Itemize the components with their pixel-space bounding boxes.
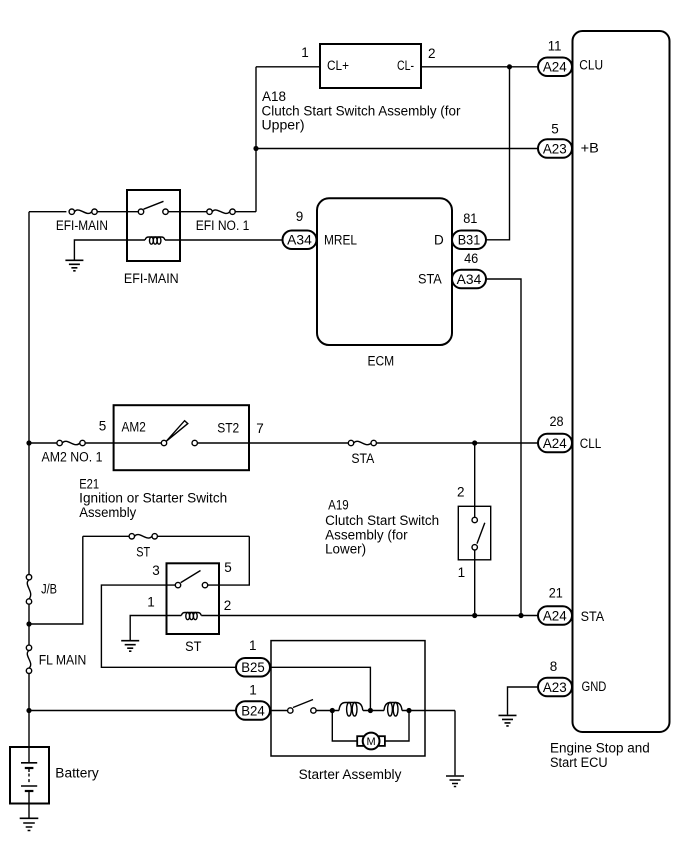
wire CLL to switch A19 (474, 443, 476, 517)
svg-text:81: 81 (463, 211, 477, 226)
svg-text:46: 46 (464, 251, 478, 266)
wire CL+ pin1 (256, 66, 320, 68)
starter assembly box (271, 641, 425, 782)
pin B24 (236, 683, 270, 720)
relay ST contacts (175, 571, 207, 588)
svg-text:11: 11 (548, 38, 562, 53)
wire STA row (201, 615, 538, 617)
relay EFI-MAIN contacts (138, 201, 168, 214)
svg-text:28: 28 (549, 414, 563, 429)
node junction B24 row left (26, 708, 31, 713)
ground (EFI relay) (65, 260, 83, 271)
wire B25 into starter (270, 667, 370, 710)
wire coil to ground (130, 616, 181, 641)
svg-text:Lower): Lower) (325, 542, 366, 557)
svg-text:8: 8 (550, 659, 558, 674)
fuse EFI-MAIN (56, 209, 108, 233)
relay ST box (167, 563, 220, 654)
svg-text:A34: A34 (287, 233, 312, 248)
svg-text:A24: A24 (543, 436, 567, 451)
svg-text:STA: STA (581, 609, 605, 624)
svg-text:EFI-MAIN: EFI-MAIN (56, 218, 108, 233)
svg-text:ST: ST (136, 545, 150, 560)
wire J/B to ST fuse (29, 536, 83, 624)
svg-text:Assembly (for: Assembly (for (325, 527, 408, 542)
wire +B row (256, 148, 538, 150)
node junction motor tap right (406, 708, 411, 713)
wire AM2 row (29, 442, 538, 444)
node junction STA row right (518, 613, 523, 618)
svg-text:AM2: AM2 (122, 420, 146, 435)
svg-text:Engine Stop and: Engine Stop and (550, 741, 650, 756)
solenoid coil 1 (339, 703, 363, 717)
svg-text:ECM: ECM (367, 353, 394, 368)
svg-text:A23: A23 (543, 141, 567, 156)
switch A19 box (458, 506, 490, 560)
svg-text:B31: B31 (458, 233, 481, 248)
svg-text:21: 21 (549, 585, 563, 600)
svg-text:FL MAIN: FL MAIN (39, 652, 87, 667)
ground (ST relay) (121, 641, 139, 652)
svg-text:Start ECU: Start ECU (550, 755, 608, 770)
pin A24 STA (538, 585, 604, 624)
switch E21 contacts (161, 421, 197, 446)
wire ST fuse to relay pin 5 (208, 536, 250, 585)
svg-text:1: 1 (301, 45, 309, 60)
switch E21 box (114, 405, 249, 470)
pin A34 MREL (283, 209, 358, 249)
node junction J/B row (26, 621, 31, 626)
wire ST fuse row (83, 535, 250, 537)
svg-text:EFI-MAIN: EFI-MAIN (124, 271, 179, 286)
wire motor branch (332, 711, 409, 742)
svg-text:ST: ST (185, 639, 201, 654)
svg-text:9: 9 (296, 209, 304, 224)
wire starter to ground (454, 711, 456, 776)
svg-text:ST2: ST2 (217, 421, 239, 436)
svg-text:STA: STA (418, 271, 442, 286)
fuse ST (129, 534, 157, 560)
wire B24 into starter (270, 710, 455, 712)
label A18 (262, 89, 462, 132)
node junction CLL row (472, 440, 477, 445)
battery cells (21, 747, 37, 818)
svg-text:Ignition or Starter Switch: Ignition or Starter Switch (79, 491, 227, 506)
pin A24 CLL (538, 414, 602, 452)
left bus wire (28, 212, 30, 747)
wire coil to ground (74, 240, 145, 260)
wire CL- to CLU pin (421, 66, 538, 68)
node junction CL-/D (507, 64, 512, 69)
pin A23 +B (538, 122, 599, 158)
svg-text:J/B: J/B (41, 582, 57, 597)
svg-text:1: 1 (458, 565, 466, 580)
svg-text:CLL: CLL (580, 436, 602, 451)
fusible link J/B (26, 575, 57, 605)
svg-text:A23: A23 (543, 680, 567, 695)
clutch start switch (upper) box A18 (320, 44, 421, 88)
svg-text:B24: B24 (241, 703, 265, 718)
svg-text:E21: E21 (79, 476, 99, 491)
ECM box (317, 198, 452, 368)
pin A34 STA (418, 251, 486, 288)
svg-text:1: 1 (147, 595, 155, 610)
wire EFI row (29, 211, 256, 213)
svg-text:A34: A34 (457, 272, 482, 287)
svg-text:B25: B25 (241, 660, 265, 675)
wire vertical pin1 down (255, 67, 257, 212)
svg-text:5: 5 (99, 419, 107, 434)
node junction motor tap left (330, 708, 335, 713)
motor M (357, 733, 385, 750)
svg-text:2: 2 (224, 598, 232, 613)
starter switch contacts (288, 700, 317, 714)
svg-text:CL-: CL- (397, 58, 414, 73)
svg-text:Assembly: Assembly (79, 505, 136, 520)
wire relay pin 3 to B25 (101, 585, 236, 667)
pin B25 (236, 638, 270, 677)
svg-text:1: 1 (249, 683, 257, 698)
node junction B25 tap (368, 708, 373, 713)
svg-text:M: M (367, 736, 376, 748)
switch A19 contacts (472, 517, 485, 550)
svg-text:A24: A24 (543, 608, 567, 623)
relay EFI-MAIN coil (145, 237, 165, 244)
battery box (10, 747, 99, 804)
svg-text:2: 2 (457, 485, 465, 500)
svg-text:A19: A19 (328, 497, 349, 512)
wire B24 row (29, 710, 236, 712)
relay EFI-MAIN box (124, 190, 180, 286)
wire B31 to CL- node (486, 67, 510, 240)
svg-text:Upper): Upper) (262, 117, 305, 132)
node junction +B (253, 146, 258, 151)
svg-text:EFI NO. 1: EFI NO. 1 (196, 218, 250, 233)
svg-text:+B: +B (581, 140, 599, 155)
wire GND pin to ground (508, 687, 539, 715)
svg-text:Clutch Start Switch Assembly (: Clutch Start Switch Assembly (for (262, 104, 462, 119)
svg-text:5: 5 (551, 122, 559, 137)
fusible link FL MAIN (26, 645, 86, 673)
svg-text:7: 7 (256, 421, 264, 436)
ECU box (Engine Stop and Start ECU) (550, 31, 670, 770)
svg-text:2: 2 (428, 46, 436, 61)
ground (ECU GND) (499, 715, 517, 726)
svg-text:A24: A24 (543, 59, 567, 74)
svg-text:Battery: Battery (55, 765, 99, 780)
fuse AM2 NO. 1 (42, 440, 103, 464)
node junction STA row left (472, 613, 477, 618)
svg-text:3: 3 (152, 563, 160, 578)
svg-text:1: 1 (249, 638, 257, 653)
svg-text:CL+: CL+ (327, 58, 349, 73)
ground (starter) (446, 776, 464, 787)
svg-text:MREL: MREL (324, 233, 357, 248)
label A19 (325, 497, 439, 556)
wire ECM STA down (486, 279, 521, 616)
node junction AM2 row (26, 440, 31, 445)
ground (battery) (20, 818, 39, 830)
wire coil to MREL (165, 239, 283, 241)
svg-text:Starter Assembly: Starter Assembly (299, 767, 402, 782)
solenoid coil 2 (384, 703, 402, 717)
svg-text:5: 5 (224, 560, 232, 575)
svg-text:Clutch Start Switch: Clutch Start Switch (325, 513, 439, 528)
label E21 (79, 476, 227, 520)
pin A23 GND (538, 659, 607, 696)
svg-text:GND: GND (582, 679, 607, 694)
relay ST coil (181, 613, 201, 620)
svg-text:CLU: CLU (579, 57, 603, 72)
svg-text:A18: A18 (262, 89, 286, 104)
svg-text:D: D (434, 233, 444, 248)
wire switch A19 to STA row (474, 550, 476, 616)
svg-text:AM2 NO. 1: AM2 NO. 1 (42, 450, 103, 465)
fuse EFI NO. 1 (196, 209, 250, 233)
svg-text:STA: STA (351, 451, 374, 466)
pin B31 D (434, 211, 486, 249)
pin A24 CLU (538, 38, 603, 76)
fuse STA (348, 440, 376, 466)
